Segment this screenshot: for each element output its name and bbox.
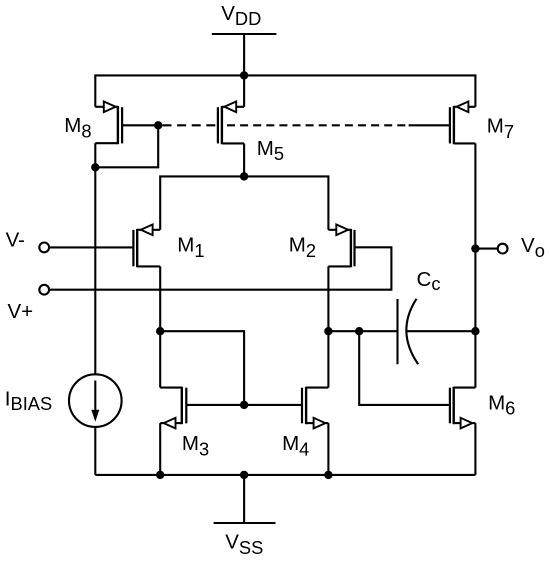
transistor M3 — [160, 331, 186, 475]
svg-text:VDD: VDD — [221, 2, 261, 29]
wire M2 drain down — [327, 266, 329, 331]
svg-text:V-: V- — [6, 228, 25, 251]
svg-text:M3: M3 — [182, 432, 209, 459]
svg-text:Cc: Cc — [417, 268, 441, 294]
svg-text:M5: M5 — [257, 137, 284, 164]
wire Cc tap to M6 gate — [359, 331, 449, 405]
junction M8 drain node — [91, 163, 99, 171]
svg-text:Vo: Vo — [521, 234, 545, 261]
junction M1-M3 drain node — [156, 327, 164, 335]
wire M3-M4 gate rail — [186, 404, 302, 406]
svg-text:IBIAS: IBIAS — [5, 388, 52, 415]
terminal V+ — [39, 285, 49, 295]
junction M8 gate node — [154, 121, 162, 129]
transistor M1 — [133, 225, 160, 268]
junction Cc output node — [471, 327, 479, 335]
wire M8 gate lead — [122, 124, 158, 126]
svg-text:M8: M8 — [64, 114, 91, 141]
junction gate rail — [240, 401, 248, 409]
junction VSS stub — [240, 471, 248, 479]
wire tail rail — [160, 176, 328, 229]
transistor M7 — [450, 102, 476, 145]
wire IBIAS to rail — [94, 427, 96, 475]
junction M5 drain tail — [240, 172, 248, 180]
wire bottom rail — [95, 474, 475, 476]
terminal Vo — [498, 244, 508, 254]
junction VDD-rail — [240, 71, 248, 79]
power symbol VSS bar — [214, 522, 276, 524]
wire M7 gate lead — [409, 124, 449, 126]
transistor M6 — [450, 387, 476, 475]
wire M7 drain to Vo — [474, 143, 476, 248]
wire VDD stub — [243, 34, 245, 75]
terminal V- — [39, 243, 49, 253]
power symbol VDD bar — [212, 33, 277, 35]
junction Vo node — [471, 244, 479, 252]
svg-text:V+: V+ — [8, 300, 34, 323]
current source IBIAS — [69, 374, 122, 427]
wire left branch to IBIAS — [94, 167, 96, 374]
wire dashed gate link M8-M5 — [163, 124, 218, 126]
wire VSS stub — [243, 475, 245, 523]
svg-text:VSS: VSS — [225, 531, 263, 558]
wire M3 diode connection — [160, 331, 244, 405]
wire V- to M1 gate — [50, 246, 133, 248]
wire M8 diode connection — [95, 125, 158, 167]
transistor M2 — [328, 225, 354, 268]
junction M4 source — [324, 471, 332, 479]
wire output branch — [474, 249, 476, 388]
transistor M4 — [302, 331, 328, 475]
capacitor Cc — [398, 299, 476, 364]
junction M2-M4 drain node — [324, 327, 332, 335]
wire V+ to M2 gate — [50, 247, 392, 289]
svg-text:M2: M2 — [289, 234, 316, 261]
wire dashed gate link M5-M7 — [227, 124, 409, 126]
wire Vo — [475, 248, 497, 250]
wire M1 drain down — [159, 266, 161, 331]
wire node to Cc — [328, 330, 397, 332]
transistor M5 — [218, 75, 244, 176]
wire top supply rail — [95, 75, 475, 106]
junction Cc tap node — [355, 327, 363, 335]
svg-text:M4: M4 — [282, 432, 309, 459]
transistor M8 — [95, 102, 122, 168]
svg-text:M7: M7 — [487, 115, 514, 142]
junction M3 source — [156, 471, 164, 479]
svg-text:M1: M1 — [177, 234, 204, 261]
svg-text:M6: M6 — [488, 391, 515, 418]
